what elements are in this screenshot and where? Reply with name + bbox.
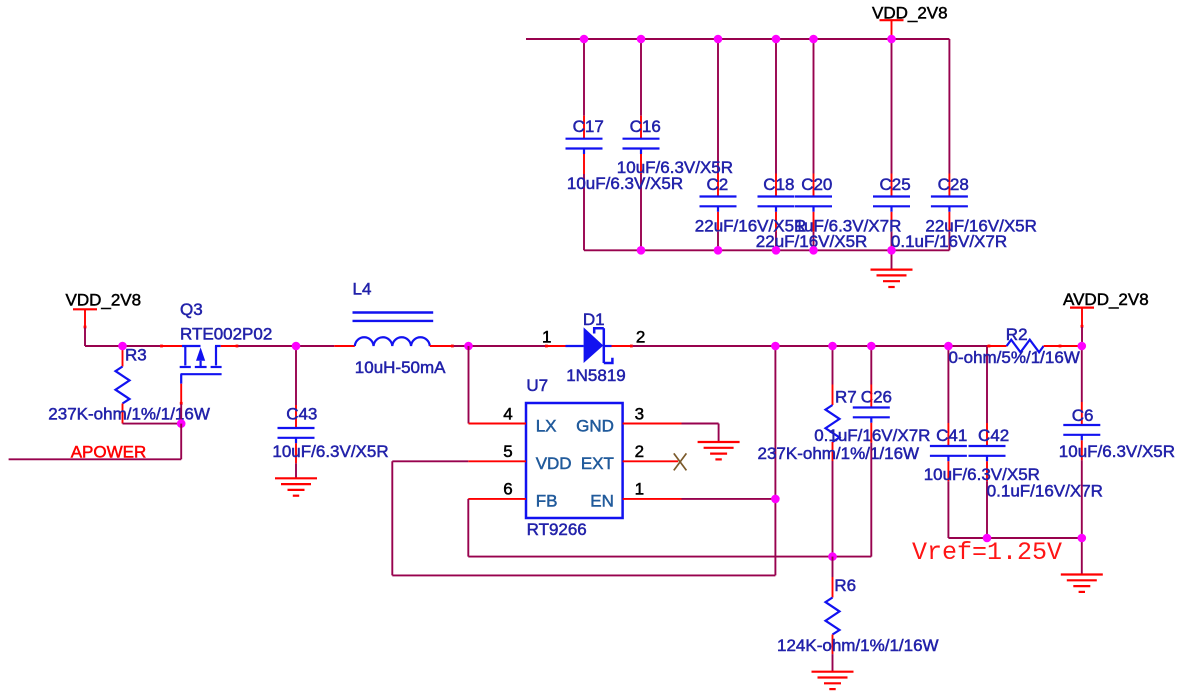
- wire GND pin to ground: [682, 423, 719, 425]
- wire column C16: [640, 39, 642, 116]
- svg-text:R6: R6: [834, 576, 856, 595]
- capacitor C18: [758, 174, 795, 232]
- svg-text:R3: R3: [125, 345, 147, 364]
- svg-text:3: 3: [635, 404, 644, 423]
- power symbol VDD_2V8 top: [872, 3, 948, 39]
- inductor L4: [334, 313, 454, 348]
- svg-text:C25: C25: [880, 175, 911, 194]
- svg-text:10uF/6.3V/X5R: 10uF/6.3V/X5R: [567, 174, 683, 193]
- svg-text:GND: GND: [576, 416, 614, 435]
- power symbol VDD_2V8 left: [66, 291, 142, 346]
- wire L4 to D1: [454, 345, 545, 347]
- resistor R2: [987, 340, 1080, 353]
- wire FB drop: [467, 499, 469, 557]
- junction dots top bus: [580, 35, 589, 44]
- ground below C43: [275, 463, 317, 495]
- node FB net R6 junction: [828, 552, 837, 561]
- svg-text:237K-ohm/1%/1/16W: 237K-ohm/1%/1/16W: [48, 404, 210, 423]
- wire R3 bottom to gate node: [123, 423, 182, 425]
- wire rail to LX drop: [468, 346, 470, 424]
- svg-text:Vref=1.25V: Vref=1.25V: [912, 538, 1062, 567]
- svg-text:D1: D1: [583, 310, 605, 329]
- svg-text:RT9266: RT9266: [527, 520, 587, 539]
- svg-text:0.1uF/16V/X7R: 0.1uF/16V/X7R: [987, 481, 1103, 500]
- svg-text:5: 5: [503, 442, 512, 461]
- svg-text:124K-ohm/1%/1/16W: 124K-ohm/1%/1/16W: [777, 636, 939, 655]
- svg-text:2: 2: [636, 327, 645, 346]
- wire column C25: [891, 39, 893, 174]
- wire EN vertical from rail to loop: [774, 346, 776, 575]
- node AVDD rail: [1078, 342, 1087, 351]
- svg-text:EXT: EXT: [581, 454, 614, 473]
- svg-text:EN: EN: [590, 492, 614, 511]
- capacitor C28: [931, 174, 968, 232]
- svg-text:4: 4: [503, 404, 512, 423]
- no-connect X on EXT: [674, 453, 687, 470]
- wire column C2: [717, 39, 719, 174]
- svg-text:Q3: Q3: [180, 300, 203, 319]
- svg-text:1: 1: [542, 327, 551, 346]
- node L4 right junction: [464, 342, 473, 351]
- junction dots bottom bus: [637, 246, 646, 255]
- power symbol AVDD_2V8: [1063, 290, 1149, 346]
- wire column C28: [948, 39, 950, 174]
- capacitor C2: [700, 174, 737, 232]
- wire VDD-EN loop (left vertical): [391, 461, 393, 575]
- svg-text:APOWER: APOWER: [71, 442, 147, 461]
- svg-text:0.1uF/16V/X7R: 0.1uF/16V/X7R: [891, 232, 1007, 251]
- capacitor C16: [623, 116, 660, 174]
- wire D1 to right section: [633, 345, 987, 347]
- svg-text:R7: R7: [835, 387, 857, 406]
- wire FB feedback run: [468, 556, 871, 558]
- wire APOWER rail: [9, 458, 182, 460]
- wire Q3 gate down: [180, 384, 183, 424]
- wire bottom bus: [584, 249, 949, 251]
- node EN junction: [771, 495, 780, 504]
- svg-text:C18: C18: [763, 175, 794, 194]
- resistor R7: [826, 346, 840, 557]
- pin 2 D1: [612, 327, 646, 347]
- svg-text:RTE002P02: RTE002P02: [180, 325, 272, 344]
- node gate junction: [177, 419, 186, 428]
- node C6 Vref: [1078, 534, 1087, 543]
- pin 5 VDD: [468, 442, 571, 473]
- capacitor C43: [278, 405, 315, 463]
- capacitor C41: [930, 423, 967, 538]
- svg-text:VDD_2V8: VDD_2V8: [66, 291, 142, 310]
- capacitor C6: [1063, 402, 1100, 538]
- svg-text:C2: C2: [707, 175, 729, 194]
- svg-text:0.1uF/16V/X7R: 0.1uF/16V/X7R: [814, 426, 930, 445]
- svg-text:FB: FB: [536, 492, 558, 511]
- svg-text:2: 2: [635, 442, 644, 461]
- svg-text:C28: C28: [938, 175, 969, 194]
- wire C6 to ground: [1081, 538, 1083, 575]
- node C43 rail: [292, 342, 301, 351]
- pin 1 EN: [590, 480, 681, 511]
- node C41 rail: [944, 342, 953, 351]
- capacitor C26: [853, 385, 890, 557]
- svg-text:1: 1: [635, 480, 644, 499]
- wire VDD row left: [392, 460, 468, 462]
- svg-text:C20: C20: [801, 175, 832, 194]
- capacitor C25: [873, 174, 910, 232]
- capacitor C20: [795, 174, 832, 232]
- pin 1 D1: [542, 327, 566, 347]
- capacitor C17: [566, 116, 603, 174]
- svg-text:R2: R2: [1006, 325, 1028, 344]
- svg-text:10uF/6.3V/X5R: 10uF/6.3V/X5R: [272, 442, 388, 461]
- node C26 rail: [867, 342, 876, 351]
- wire C6 column top: [1081, 346, 1083, 402]
- svg-text:C17: C17: [573, 117, 604, 136]
- svg-text:C42: C42: [978, 426, 1009, 445]
- op-amp U7 box: [526, 403, 623, 518]
- svg-text:10uH-50mA: 10uH-50mA: [355, 358, 446, 377]
- svg-text:C43: C43: [286, 404, 317, 423]
- capacitor C41 column: [947, 346, 949, 423]
- wire VDD-EN loop (bottom): [392, 574, 775, 576]
- node C42 Vref: [983, 534, 992, 543]
- ground U7 GND: [698, 441, 740, 443]
- svg-text:10uF/6.3V/X5R: 10uF/6.3V/X5R: [1059, 442, 1175, 461]
- svg-text:1N5819: 1N5819: [566, 366, 626, 385]
- wire rail VDD to Q3: [85, 345, 160, 347]
- transistor Q3 RTE002P02: [180, 346, 222, 384]
- capacitor C42: [969, 423, 1006, 538]
- wire EN to right: [682, 498, 776, 500]
- node R3 rail: [118, 342, 127, 351]
- wire column C17: [583, 39, 585, 116]
- svg-text:C41: C41: [936, 426, 967, 445]
- wire C43 column top: [295, 346, 297, 405]
- svg-text:C16: C16: [630, 117, 661, 136]
- node rail junction at EN column: [771, 342, 780, 351]
- ground below R6: [812, 671, 854, 673]
- ground below C25: [871, 250, 913, 287]
- resistor R6: [826, 557, 840, 672]
- pin 2 EXT: [581, 442, 678, 473]
- node R7 rail: [828, 342, 837, 351]
- svg-text:237K-ohm/1%/1/16W: 237K-ohm/1%/1/16W: [758, 444, 920, 463]
- svg-text:VDD: VDD: [536, 454, 572, 473]
- pin 4 LX: [469, 404, 557, 435]
- svg-text:LX: LX: [536, 416, 557, 435]
- wire gate node down to APOWER: [180, 424, 182, 460]
- capacitor C26 column: [870, 346, 872, 385]
- wire Vref node bottom: [948, 537, 1081, 539]
- pin 6 FB: [468, 480, 557, 511]
- ground below C6: [1061, 573, 1103, 575]
- svg-text:0-ohm/5%/1/16W: 0-ohm/5%/1/16W: [949, 348, 1080, 367]
- svg-text:AVDD_2V8: AVDD_2V8: [1063, 290, 1149, 309]
- diode D1 1N5819: [566, 327, 613, 363]
- svg-text:U7: U7: [526, 376, 548, 395]
- resistor R3: [116, 346, 130, 424]
- wire column C18: [775, 39, 777, 174]
- wire Q3 drain to C43: [221, 345, 239, 347]
- wire top bus VDD_2V8: [526, 38, 949, 40]
- svg-text:6: 6: [503, 480, 512, 499]
- svg-text:C6: C6: [1072, 406, 1094, 425]
- svg-text:L4: L4: [353, 280, 372, 299]
- svg-text:C26: C26: [861, 387, 892, 406]
- capacitor C42 column: [986, 346, 988, 423]
- wire column C20: [813, 39, 815, 174]
- pin 3 GND: [576, 404, 681, 435]
